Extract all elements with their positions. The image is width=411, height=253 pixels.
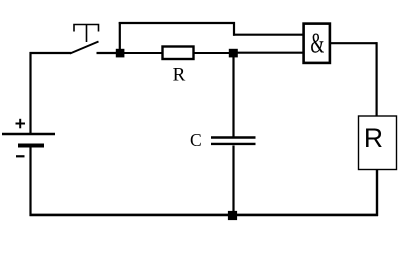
wire bbox=[29, 52, 31, 134]
switch S1 (push button) bbox=[70, 25, 117, 54]
wire J1 up bbox=[119, 22, 121, 49]
wire to AND gate upper input bbox=[233, 34, 303, 36]
capacitor C1 bbox=[211, 138, 256, 144]
wire step down bbox=[233, 22, 235, 36]
switch right contact stub bbox=[97, 52, 118, 54]
push button actuator bbox=[74, 25, 99, 32]
label - bbox=[16, 155, 25, 157]
svg-text:&: & bbox=[310, 28, 324, 59]
wire J1 to resistor bbox=[124, 52, 162, 54]
wire bottom run bbox=[30, 214, 379, 217]
wire top-left from battery to switch bbox=[30, 52, 72, 54]
battery short negative plate bbox=[18, 144, 44, 148]
wire J2 down to capacitor bbox=[232, 57, 234, 137]
wire AND output bbox=[330, 42, 378, 44]
capacitor bottom plate bbox=[211, 143, 256, 145]
wire resistor to J2 bbox=[194, 52, 230, 54]
wire down to load bbox=[376, 42, 378, 116]
label + bbox=[16, 119, 26, 129]
load resistor R2 bbox=[359, 116, 397, 170]
wire capacitor down to J3 bbox=[232, 146, 234, 213]
capacitor top plate bbox=[211, 136, 256, 138]
svg-text:R: R bbox=[364, 123, 383, 153]
battery long positive plate bbox=[2, 133, 55, 135]
node junction J1 bbox=[116, 49, 125, 58]
wire load to bottom bbox=[376, 169, 378, 216]
svg-text:R: R bbox=[173, 65, 186, 86]
wire J2 to AND gate lower input bbox=[237, 52, 303, 54]
wire bbox=[29, 148, 31, 217]
wire top run bbox=[119, 22, 235, 24]
svg-text:C: C bbox=[190, 130, 202, 150]
node junction J3 bbox=[228, 211, 237, 220]
actuator stem bbox=[86, 25, 88, 43]
node junction J2 bbox=[229, 49, 238, 58]
AND gate U1 bbox=[304, 24, 330, 63]
battery B1 bbox=[2, 52, 55, 216]
switch blade bbox=[70, 42, 99, 54]
resistor R1 bbox=[163, 47, 194, 60]
